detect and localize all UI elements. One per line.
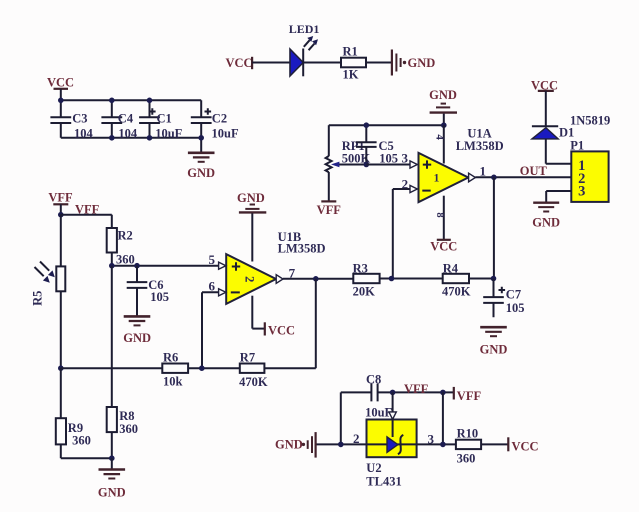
svg-text:C5: C5 <box>379 139 394 153</box>
svg-text:VCC: VCC <box>226 56 253 70</box>
svg-text:10k: 10k <box>163 375 183 389</box>
svg-text:VCC: VCC <box>430 239 457 253</box>
svg-text:VFF: VFF <box>317 203 342 217</box>
svg-text:5: 5 <box>209 252 216 267</box>
svg-text:R3: R3 <box>353 261 368 275</box>
svg-text:RP1: RP1 <box>342 139 365 153</box>
svg-text:C8: C8 <box>366 372 381 386</box>
svg-text:U2: U2 <box>366 461 381 475</box>
svg-text:VCC: VCC <box>512 440 539 454</box>
svg-text:LM358D: LM358D <box>278 242 326 256</box>
svg-text:2: 2 <box>353 431 360 446</box>
svg-text:R10: R10 <box>457 426 479 440</box>
svg-text:10uF: 10uF <box>155 126 182 140</box>
svg-text:105: 105 <box>150 290 169 304</box>
svg-text:C1: C1 <box>157 111 172 125</box>
svg-text:2: 2 <box>242 276 256 282</box>
svg-text:1: 1 <box>480 163 487 178</box>
svg-text:104: 104 <box>74 126 94 140</box>
svg-text:R8: R8 <box>119 409 134 423</box>
svg-text:1: 1 <box>434 172 440 184</box>
svg-text:GND: GND <box>480 343 508 357</box>
svg-text:360: 360 <box>119 422 138 436</box>
svg-text:LED1: LED1 <box>289 22 320 36</box>
svg-text:TL431: TL431 <box>366 474 401 488</box>
svg-text:104: 104 <box>118 126 137 140</box>
svg-text:3: 3 <box>428 431 435 446</box>
svg-text:VCC: VCC <box>47 76 74 90</box>
svg-text:3: 3 <box>578 183 585 199</box>
svg-text:R5: R5 <box>31 291 45 306</box>
svg-text:360: 360 <box>116 253 135 267</box>
svg-text:OUT: OUT <box>520 164 548 178</box>
svg-text:1K: 1K <box>343 68 359 82</box>
svg-text:20K: 20K <box>353 285 376 299</box>
svg-text:VFF: VFF <box>48 191 73 205</box>
svg-text:D1: D1 <box>559 126 574 140</box>
svg-text:4: 4 <box>433 134 445 140</box>
svg-text:GND: GND <box>98 486 126 500</box>
svg-text:105: 105 <box>506 301 525 315</box>
svg-text:VCC: VCC <box>268 323 295 337</box>
svg-text:R6: R6 <box>163 350 178 364</box>
svg-text:360: 360 <box>72 433 91 447</box>
svg-text:GND: GND <box>187 166 215 180</box>
svg-text:360: 360 <box>457 451 476 465</box>
svg-text:GND: GND <box>275 438 303 452</box>
svg-text:470K: 470K <box>442 285 471 299</box>
svg-text:GND: GND <box>123 331 151 345</box>
svg-text:VFF: VFF <box>404 382 429 396</box>
svg-text:P1: P1 <box>570 139 584 153</box>
svg-text:R2: R2 <box>118 229 133 243</box>
svg-text:C4: C4 <box>118 111 134 125</box>
svg-text:3: 3 <box>402 151 409 166</box>
svg-text:VFF: VFF <box>457 389 482 403</box>
svg-text:C3: C3 <box>72 111 87 125</box>
svg-text:C7: C7 <box>506 288 521 302</box>
svg-text:GND: GND <box>429 88 457 102</box>
svg-text:1N5819: 1N5819 <box>570 113 610 127</box>
svg-text:10uF: 10uF <box>212 126 239 140</box>
svg-text:R1: R1 <box>343 45 358 59</box>
svg-text:GND: GND <box>408 56 436 70</box>
svg-text:7: 7 <box>289 266 296 281</box>
svg-text:R7: R7 <box>240 350 255 364</box>
svg-text:470K: 470K <box>239 375 268 389</box>
svg-text:GND: GND <box>532 215 560 229</box>
svg-text:GND: GND <box>237 191 265 205</box>
svg-text:LM358D: LM358D <box>456 139 504 153</box>
svg-text:R4: R4 <box>443 261 459 275</box>
svg-text:C2: C2 <box>212 111 227 125</box>
svg-text:8: 8 <box>434 212 445 217</box>
svg-text:6: 6 <box>209 279 216 294</box>
